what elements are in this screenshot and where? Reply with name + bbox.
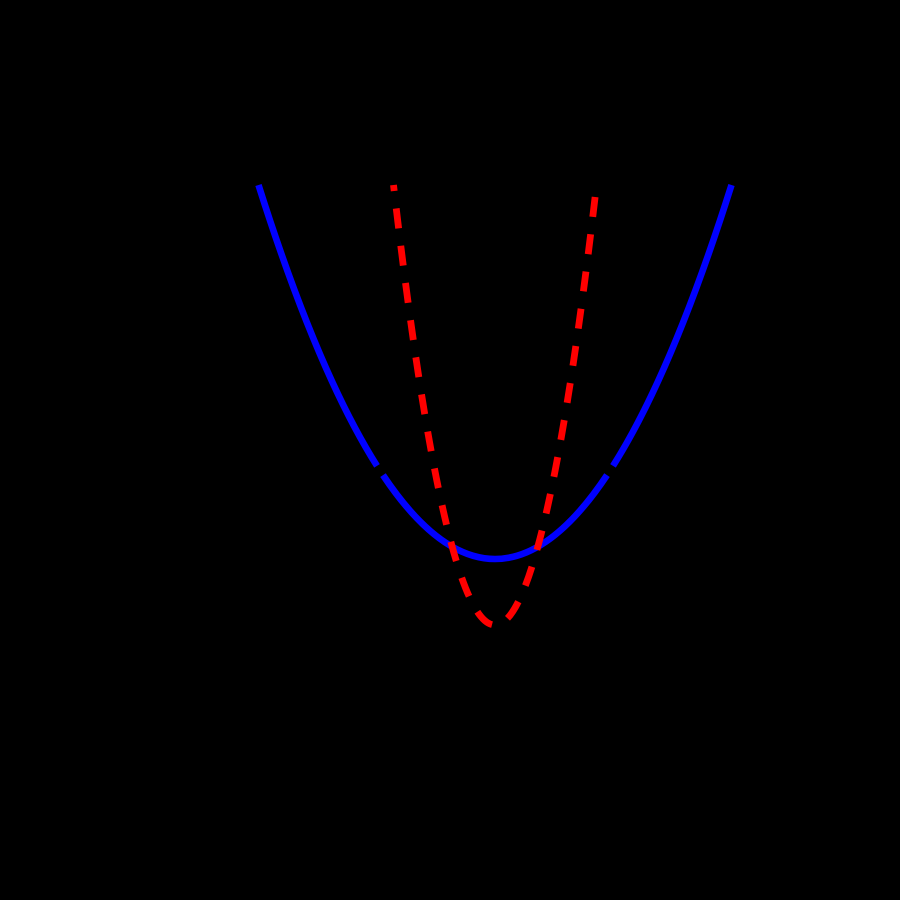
wide blue parabola (solid with two small gaps)	[259, 185, 732, 559]
narrow red dashed parabola	[394, 185, 597, 625]
